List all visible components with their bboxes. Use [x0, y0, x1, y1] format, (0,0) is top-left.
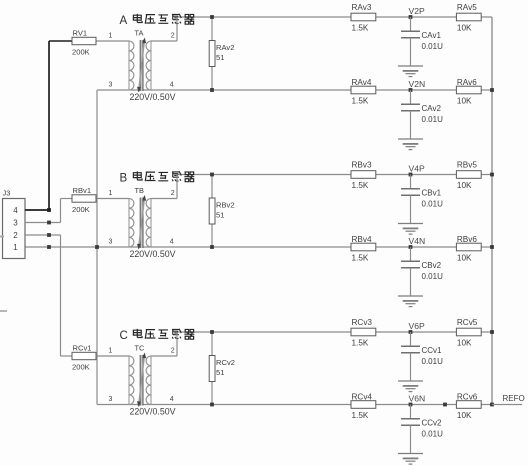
wire RV1 to transformer pin1 [96, 40, 129, 42]
svg-text:RBv1: RBv1 [73, 186, 92, 195]
resistor RBv2 [209, 198, 215, 224]
wire J3 pin2 riser to RCv1 [60, 235, 62, 356]
wire J3 pin4 [25, 209, 49, 211]
junction bus / C top rail [490, 330, 494, 334]
resistor RV1 [72, 37, 96, 44]
ground [398, 139, 423, 150]
ground [398, 454, 423, 465]
wire B bottom row [25, 246, 492, 248]
svg-text:10K: 10K [457, 181, 472, 190]
svg-text:0.01U: 0.01U [422, 429, 444, 438]
svg-text:J3: J3 [3, 189, 11, 198]
wire RCv2 top stub [211, 332, 213, 356]
resistor RAv6 [456, 86, 481, 94]
svg-text:10K: 10K [457, 411, 472, 420]
ground [398, 381, 423, 392]
svg-text:4: 4 [170, 239, 174, 246]
svg-text:10K: 10K [457, 253, 472, 262]
svg-text:RV1: RV1 [73, 29, 88, 38]
svg-text:51: 51 [216, 53, 224, 62]
resistor RCv1 [72, 352, 96, 359]
svg-text:CAv2: CAv2 [422, 104, 442, 113]
wire C top rail [177, 331, 492, 333]
resistor RAv4 [351, 86, 376, 94]
wire REFO output [492, 404, 522, 406]
junction RAv2 top [210, 15, 214, 19]
wire V6P to CCv1 [410, 332, 412, 346]
svg-text:10K: 10K [457, 96, 472, 105]
wire CCv2 to ground [410, 425, 412, 453]
transformer TA (A phase voltage transformer) [129, 38, 151, 93]
svg-text:1.5K: 1.5K [352, 339, 369, 348]
wire B top rail [177, 174, 492, 176]
svg-text:0.01U: 0.01U [422, 357, 444, 366]
svg-text:3: 3 [109, 82, 113, 89]
svg-text:RAv6: RAv6 [457, 78, 477, 87]
svg-text:RBv6: RBv6 [457, 235, 477, 244]
wire dark feed riser (J3 pin4 to RV1) [48, 41, 50, 210]
svg-text:TB: TB [135, 186, 145, 195]
junction RBv2 bottom [210, 245, 214, 249]
wire RBv2 top stub [211, 175, 213, 199]
svg-text:V2N: V2N [409, 79, 426, 89]
svg-text:2: 2 [13, 231, 18, 240]
ground [398, 66, 423, 77]
wire V4N to CBv2 [410, 247, 412, 261]
wire CAv1 to ground [410, 38, 412, 66]
junction RCv2 top [210, 330, 214, 334]
resistor RCv5 [456, 328, 481, 336]
svg-text:51: 51 [216, 368, 224, 377]
svg-text:1: 1 [109, 32, 113, 39]
junction RBv2 top [210, 173, 214, 177]
svg-text:1.5K: 1.5K [352, 411, 369, 420]
junction bus / A bottom row [490, 88, 494, 92]
wire pin2 riser A [176, 17, 178, 41]
wire to RBv1 [61, 198, 73, 200]
svg-text:B: B [120, 173, 128, 185]
wire RBv1 to transformer pin1 [96, 198, 129, 200]
junction RAv2 bottom [210, 88, 214, 92]
transformer TC (C phase voltage transformer) [129, 353, 151, 408]
node V6N [409, 403, 413, 407]
svg-text:CCv1: CCv1 [422, 346, 443, 355]
svg-text:200K: 200K [72, 363, 90, 372]
resistor RBv4 [351, 243, 376, 251]
svg-text:220V/0.50V: 220V/0.50V [130, 407, 176, 417]
wire pin2 TC [151, 355, 177, 357]
svg-text:1.5K: 1.5K [352, 253, 369, 262]
svg-text:1.5K: 1.5K [352, 24, 369, 33]
wire pin2 riser B [176, 175, 178, 199]
svg-text:4: 4 [13, 206, 18, 215]
svg-text:V4N: V4N [409, 236, 426, 246]
svg-text:V4P: V4P [409, 164, 426, 174]
wire J3 pin3 riser to RBv1 [60, 199, 62, 223]
capacitor CBv2 [401, 260, 420, 262]
svg-text:RAv4: RAv4 [352, 78, 372, 87]
wire C bottom row [97, 404, 492, 406]
resistor RBv1 [72, 195, 96, 202]
junction common riser / B bottom row [95, 245, 99, 249]
wire J3 pin3 [25, 222, 61, 224]
svg-text:1: 1 [13, 243, 18, 252]
svg-text:RBv4: RBv4 [352, 235, 372, 244]
svg-text:CCv2: CCv2 [422, 419, 443, 428]
svg-text:V6P: V6P [409, 321, 426, 331]
junction J3 pin4 [47, 208, 51, 212]
svg-text:RCv6: RCv6 [457, 393, 478, 402]
svg-text:0.01U: 0.01U [422, 42, 444, 51]
capacitor CBv1 [401, 188, 420, 190]
svg-text:2: 2 [171, 347, 175, 354]
wire to RCv1 [61, 355, 73, 357]
svg-text:4: 4 [170, 82, 174, 89]
svg-text:CBv1: CBv1 [422, 189, 442, 198]
wire RCv2 bottom stub [211, 382, 213, 405]
wire J3 pin2 [25, 234, 61, 236]
svg-text:0.01U: 0.01U [422, 199, 444, 208]
node V2P [409, 15, 413, 19]
wire pin2 TB [151, 198, 177, 200]
wire artifact left edge [0, 236, 4, 238]
svg-text:3: 3 [109, 396, 113, 403]
svg-text:REFO: REFO [503, 394, 525, 403]
svg-text:10K: 10K [457, 24, 472, 33]
ground [398, 296, 423, 307]
svg-text:RCv5: RCv5 [457, 318, 478, 327]
node V4P [409, 173, 413, 177]
junction on V6N row [443, 403, 447, 407]
capacitor CCv2 [401, 418, 420, 420]
resistor RAv2 [209, 41, 215, 67]
wire V4P to CBv1 [410, 175, 412, 189]
svg-text:220V/0.50V: 220V/0.50V [130, 249, 176, 259]
wire CCv1 to ground [410, 353, 412, 381]
resistor RBv6 [456, 243, 481, 251]
svg-text:2: 2 [171, 190, 175, 197]
junction bus / C bottom row [490, 403, 494, 407]
svg-text:RCv4: RCv4 [352, 393, 373, 402]
svg-text:200K: 200K [72, 48, 90, 57]
capacitor CAv1 [401, 30, 420, 32]
resistor RBv3 [351, 171, 376, 179]
svg-text:220V/0.50V: 220V/0.50V [130, 92, 176, 102]
wire A top rail [177, 16, 492, 18]
svg-text:CBv2: CBv2 [422, 261, 442, 270]
svg-text:RCv2: RCv2 [216, 358, 235, 367]
svg-text:3: 3 [13, 219, 18, 228]
svg-text:3: 3 [109, 239, 113, 246]
wire right vertical bus [491, 17, 493, 405]
node V4N [409, 245, 413, 249]
svg-text:1.5K: 1.5K [352, 96, 369, 105]
capacitor CCv1 [401, 345, 420, 347]
svg-text:0.01U: 0.01U [422, 115, 444, 124]
svg-text:RAv5: RAv5 [457, 3, 477, 12]
svg-text:4: 4 [170, 396, 174, 403]
svg-text:RAv2: RAv2 [216, 43, 234, 52]
junction bus / B bottom row [490, 245, 494, 249]
svg-text:V6N: V6N [409, 394, 426, 404]
junction J3 pin3 [47, 221, 51, 225]
svg-text:51: 51 [216, 211, 224, 220]
svg-text:1: 1 [109, 347, 113, 354]
svg-text:A: A [120, 15, 128, 27]
wire RBv2 bottom stub [211, 224, 213, 247]
svg-text:RCv3: RCv3 [352, 318, 373, 327]
connector J3 [3, 199, 26, 259]
resistor RBv5 [456, 171, 481, 179]
ground [398, 224, 423, 235]
wire to RV1 [49, 40, 72, 42]
capacitor CAv2 [401, 103, 420, 105]
transformer TB (B phase voltage transformer) [129, 195, 151, 250]
resistor RAv3 [351, 13, 376, 21]
junction J3 pin1 [47, 245, 51, 249]
resistor RAv5 [456, 13, 481, 21]
svg-text:C: C [120, 330, 128, 342]
svg-text:CAv1: CAv1 [422, 31, 442, 40]
svg-text:RBv3: RBv3 [352, 161, 372, 170]
resistor RCv6 [456, 401, 481, 409]
svg-text:RCv1: RCv1 [73, 344, 92, 353]
svg-text:2: 2 [171, 32, 175, 39]
wire CBv1 to ground [410, 195, 412, 223]
resistor RCv3 [351, 328, 376, 336]
svg-text:10K: 10K [457, 339, 472, 348]
svg-text:RAv3: RAv3 [352, 3, 372, 12]
svg-text:RBv2: RBv2 [216, 201, 235, 210]
svg-text:200K: 200K [72, 205, 90, 214]
wire RAv2 top stub [211, 17, 213, 41]
svg-text:TC: TC [135, 344, 146, 353]
wire CBv2 to ground [410, 268, 412, 296]
wire V6N to CCv2 [410, 405, 412, 419]
wire RAv2 bottom stub [211, 67, 213, 91]
junction RCv2 bottom [210, 403, 214, 407]
svg-text:V2P: V2P [409, 6, 426, 16]
wire V2P to CAv1 [410, 17, 412, 31]
node V2N [409, 88, 413, 92]
wire A pin3 / common riser [96, 90, 98, 405]
wire A bottom row [97, 89, 492, 91]
svg-text:RBv5: RBv5 [457, 161, 477, 170]
wire pin2 TA [151, 40, 177, 42]
svg-text:1: 1 [109, 190, 113, 197]
resistor RCv4 [351, 401, 376, 409]
wire pin2 riser C [176, 332, 178, 356]
junction bus / B top rail [490, 173, 494, 177]
wire V2N to CAv2 [410, 90, 412, 104]
node V6P [409, 330, 413, 334]
wire RCv1 to transformer pin1 [96, 355, 129, 357]
svg-text:1.5K: 1.5K [352, 181, 369, 190]
junction J3 pin2 [47, 233, 51, 237]
resistor RCv2 [209, 356, 215, 382]
svg-text:0.01U: 0.01U [422, 272, 444, 281]
wire CAv2 to ground [410, 111, 412, 139]
svg-text:TA: TA [135, 29, 144, 38]
